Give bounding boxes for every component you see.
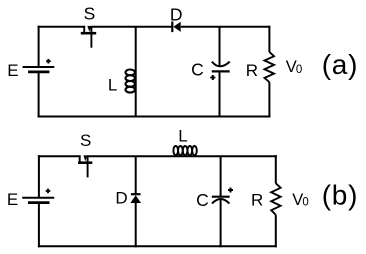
- svg-text:L: L: [178, 126, 187, 145]
- diode D (a) cathode bar: [171, 22, 173, 33]
- wire capacitor branch top (b): [220, 156, 222, 197]
- wire left rail bottom (a): [38, 72, 40, 118]
- inductor L (b) coil: [173, 146, 196, 155]
- diode D (b) triangle: [130, 195, 141, 203]
- resistor R (b): [271, 183, 280, 215]
- diode D (b) cathode bar: [131, 193, 141, 195]
- wire inductor branch (a): [135, 27, 137, 118]
- diode D (a) triangle: [173, 22, 180, 32]
- label E (a): [7, 61, 18, 80]
- svg-text:S: S: [80, 131, 91, 150]
- label V0 (a): [286, 58, 303, 76]
- label C (a): [191, 59, 204, 79]
- svg-text:R: R: [251, 191, 263, 210]
- capacitor C (b) straight plate: [212, 196, 230, 198]
- label V0 (b): [292, 191, 309, 209]
- label S (b): [80, 131, 91, 150]
- label S (a): [84, 4, 96, 24]
- wire right rail bottom (b): [275, 215, 277, 248]
- wire top rail right segment (b): [88, 155, 277, 157]
- wire top rail right segment (a): [181, 26, 271, 28]
- wire right rail top (a): [268, 26, 270, 52]
- capacitor C (a) curved plate: [212, 62, 230, 67]
- svg-text:D: D: [170, 4, 183, 24]
- battery E (b): [22, 198, 54, 203]
- svg-text:0: 0: [302, 197, 308, 209]
- wire diode branch top (b): [135, 156, 137, 193]
- label R (a): [246, 61, 258, 80]
- wire capacitor branch top (a): [219, 27, 221, 67]
- wire right rail top (b): [275, 155, 277, 183]
- wire capacitor branch bottom (b): [220, 200, 222, 248]
- wire top rail left segment (b): [38, 155, 81, 157]
- wire left rail top (b): [38, 155, 40, 198]
- switch S (a) MOSFET symbol: [81, 26, 96, 48]
- svg-text:C: C: [191, 59, 204, 79]
- svg-text:L: L: [108, 76, 117, 95]
- label D (b): [115, 188, 127, 207]
- wire bottom rail (b): [38, 245, 277, 247]
- label L (a): [108, 76, 117, 95]
- svg-text:C: C: [196, 190, 209, 210]
- plus sign of C (a): [210, 75, 215, 80]
- label C (b): [196, 190, 209, 210]
- label (a): [322, 49, 359, 80]
- wire diode branch bottom (b): [135, 203, 137, 247]
- wire capacitor branch bottom (a): [219, 71, 221, 117]
- svg-text:E: E: [7, 190, 18, 209]
- wire bottom rail (a): [38, 116, 271, 118]
- inductor L (a) coil: [126, 70, 135, 93]
- label R (b): [251, 191, 263, 210]
- battery E (a): [23, 67, 55, 72]
- wire top rail left segment (a): [38, 26, 86, 28]
- label D (a): [170, 4, 183, 24]
- plus sign of C (b): [228, 188, 233, 193]
- svg-text:(a): (a): [322, 49, 359, 80]
- plus sign of E (a): [46, 59, 51, 64]
- wire left rail bottom (b): [38, 203, 40, 248]
- svg-text:D: D: [115, 188, 127, 207]
- label (b): [322, 179, 359, 210]
- capacitor C (b) curved plate: [212, 199, 229, 204]
- resistor R (a): [265, 52, 275, 82]
- svg-text:E: E: [7, 61, 18, 80]
- wire top rail middle segment (a): [91, 26, 172, 28]
- switch S (b) MOSFET symbol: [78, 155, 92, 177]
- label E (b): [7, 190, 18, 209]
- capacitor C (a) straight plate: [212, 70, 230, 72]
- svg-text:R: R: [246, 61, 258, 80]
- wire right rail bottom (a): [268, 82, 270, 117]
- svg-text:0: 0: [296, 64, 302, 76]
- svg-text:S: S: [84, 4, 96, 24]
- plus sign of E (b): [46, 189, 51, 194]
- wire left rail top (a): [38, 26, 40, 67]
- svg-text:(b): (b): [322, 179, 359, 210]
- label L (b): [178, 126, 187, 145]
